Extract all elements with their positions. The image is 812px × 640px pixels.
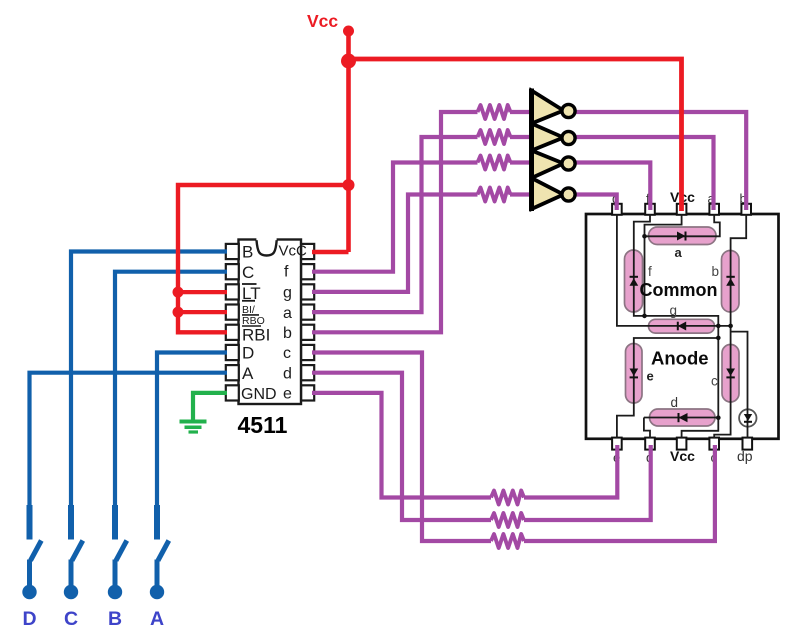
wire f output (purple) 4511 f to resistor R3 xyxy=(312,163,478,272)
switch SW-A xyxy=(150,505,169,599)
internal wire: pin b jog, segment b and c lines to pin c xyxy=(714,214,746,438)
display segment e xyxy=(626,344,643,404)
display bottom pin c (pin box) xyxy=(709,438,719,450)
junction dot rail/d xyxy=(716,415,721,420)
4511 pin BI/RBO (box) xyxy=(226,305,239,320)
display bottom pin dp (pin box) xyxy=(743,438,753,450)
wire inverter U3D output to display pin g xyxy=(576,195,617,211)
diode symbol dp xyxy=(744,414,752,422)
junction dot LT xyxy=(173,287,184,298)
wire R7 to display pin c xyxy=(524,445,715,541)
svg-text:g: g xyxy=(283,285,292,302)
display bottom pin e (pin box) xyxy=(612,438,622,450)
svg-text:A: A xyxy=(150,608,164,630)
4511 pin A (box) xyxy=(226,365,239,380)
internal wire: bottom Vcc pin to anode rail xyxy=(682,418,719,438)
internal wire: anode rail vertical xyxy=(644,236,646,316)
wire junction to 4511 Vcc pin (red) xyxy=(312,250,349,254)
display segment f xyxy=(625,250,643,312)
display top pin Vcc (pin box) xyxy=(677,204,687,215)
svg-text:GND: GND xyxy=(241,386,277,403)
wire C input (blue) from 4511 pin C to switch B column xyxy=(115,272,227,540)
svg-text:C: C xyxy=(242,263,254,282)
resistor R5 xyxy=(491,491,524,505)
display segment b xyxy=(722,251,740,313)
wire GND (green) from 4511 GND pin xyxy=(193,393,227,420)
4511 pin f (box) xyxy=(301,264,314,279)
internal wire: anode rail to segment d anode xyxy=(645,316,719,418)
resistor R3 xyxy=(478,156,511,170)
wire d output (purple) 4511 d to resistor R6 to display pin d xyxy=(312,373,491,520)
svg-text:Common: Common xyxy=(640,280,718,300)
wire R2 to inverter U3B xyxy=(510,135,531,139)
display top pin g (pin box) xyxy=(612,204,622,215)
svg-text:f: f xyxy=(284,264,289,281)
wire R4 to inverter U3D xyxy=(510,192,531,196)
svg-text:c: c xyxy=(711,374,718,389)
wire to LT pin (red) xyxy=(178,290,227,294)
svg-text:e: e xyxy=(283,386,292,403)
internal wire: segment d line xyxy=(644,418,718,439)
wire inverter U3B output to display pin a xyxy=(576,137,714,210)
junction dot rail/e-branch xyxy=(716,336,721,341)
wire Vcc to display (red) xyxy=(349,59,682,211)
svg-text:Vcc: Vcc xyxy=(670,448,695,464)
display segment c xyxy=(722,345,739,403)
svg-text:VcC: VcC xyxy=(279,243,308,260)
svg-text:c: c xyxy=(283,345,291,362)
wire red branch to LT/BI/RBI xyxy=(178,185,349,332)
wire Vcc vertical (red) xyxy=(346,31,351,252)
display dp diode circle xyxy=(739,409,756,426)
wire to BI/RBO pin (red) xyxy=(178,310,227,314)
wire R3 to inverter U3C xyxy=(510,160,531,164)
internal wire: anode rail branch to segment e xyxy=(634,338,719,344)
4511 pin Vcc (box) xyxy=(301,244,314,259)
inverter U3A xyxy=(532,91,576,124)
4511 pin c (box) xyxy=(301,345,314,360)
wire inverter U3A output to display pin b xyxy=(576,112,746,210)
4511 pin LT (box) xyxy=(226,284,239,299)
4511 IC U1 body xyxy=(239,240,302,405)
wire R6 to display pin d xyxy=(524,445,651,520)
svg-text:B: B xyxy=(242,243,253,262)
svg-text:Vcc: Vcc xyxy=(307,11,338,31)
svg-text:Anode: Anode xyxy=(651,348,709,369)
inverter U3D xyxy=(532,178,576,209)
diode symbol segment a xyxy=(677,232,686,241)
internal wire: dp anode jog and line to pin dp xyxy=(731,332,748,438)
svg-text:a: a xyxy=(675,245,683,260)
internal wire: segment a line and jog to pin a xyxy=(645,214,720,236)
svg-text:f: f xyxy=(648,264,652,279)
4511 pin b (box) xyxy=(301,325,314,340)
svg-text:a: a xyxy=(283,305,292,322)
diode symbol segment g xyxy=(678,322,686,331)
ground symbol xyxy=(180,422,207,433)
switch SW-B xyxy=(108,505,127,599)
Vcc terminal dot xyxy=(343,26,354,37)
diode symbol segment e xyxy=(630,369,639,378)
4511 pin e (box) xyxy=(301,385,314,400)
wire a output (purple) 4511 a to resistor R2 xyxy=(312,137,478,312)
svg-text:D: D xyxy=(22,608,36,630)
junction dot rail/f xyxy=(642,314,647,319)
wire inverter U3C output to display pin f xyxy=(576,163,650,211)
svg-text:C: C xyxy=(64,608,78,630)
diode symbol segment c xyxy=(726,369,735,378)
svg-text:A: A xyxy=(242,364,254,383)
internal wire: pin f jog to segment f xyxy=(634,214,650,251)
resistor R7 xyxy=(491,534,524,548)
resistor R2 xyxy=(478,130,511,144)
display top pin a (pin box) xyxy=(709,204,719,215)
diode symbol segment b xyxy=(726,277,735,286)
internal wire: segment e line to pin e xyxy=(617,344,634,439)
4511 pin g (box) xyxy=(301,284,314,299)
junction dot at Vcc rail split xyxy=(341,54,356,69)
4511 pin d (box) xyxy=(301,365,314,380)
4511 pin RBI (box) xyxy=(226,325,239,340)
internal wire: segment f line to anode rail xyxy=(634,250,645,316)
display bottom pin d (pin box) xyxy=(645,438,655,450)
svg-text:b: b xyxy=(712,264,720,279)
svg-text:4511: 4511 xyxy=(238,412,288,438)
wire R5 to display pin e xyxy=(524,445,617,498)
4511 pin B (box) xyxy=(226,244,239,259)
wire g output (purple) 4511 g to resistor R4 xyxy=(312,195,478,292)
wire b output (purple) 4511 b to resistor R1 xyxy=(312,112,478,332)
resistor R1 xyxy=(478,105,511,119)
diode symbol segment d xyxy=(679,413,688,422)
svg-text:dp: dp xyxy=(737,448,753,464)
inverter U3C xyxy=(532,151,576,179)
junction dot at 4511 Vcc branch xyxy=(343,179,355,191)
4511 pin a (box) xyxy=(301,305,314,320)
4511 pin C (box) xyxy=(226,264,239,279)
wire e output (purple) 4511 e to resistor R5 to display pin e xyxy=(312,393,491,498)
junction dot g/b xyxy=(728,324,733,329)
junction dot BI/RBO xyxy=(173,307,184,318)
svg-text:D: D xyxy=(242,344,254,363)
display segment a xyxy=(649,227,717,245)
switch SW-D xyxy=(22,505,41,599)
4511 pin GND (box) xyxy=(226,385,239,400)
4511 pin D (box) xyxy=(226,345,239,360)
wire D input (blue) from 4511 pin D to switch A column xyxy=(157,353,227,540)
junction dot a anode xyxy=(642,234,647,239)
switch SW-C xyxy=(64,505,83,599)
wire R1 to inverter U3A xyxy=(510,110,531,114)
inverter input bar xyxy=(529,89,534,212)
wire c output (purple) 4511 c to resistor R7 to display pin c xyxy=(312,353,491,542)
svg-text:d: d xyxy=(283,365,292,382)
resistor R4 xyxy=(478,188,511,202)
display segment d xyxy=(650,409,716,426)
internal wire: Vcc top pin to segment a anode xyxy=(645,214,682,236)
wire A input (blue) from 4511 pin A to switch D column xyxy=(30,373,228,540)
4511 notch xyxy=(256,238,276,241)
inverter U3B xyxy=(532,124,576,151)
resistor R6 xyxy=(491,513,524,527)
svg-text:d: d xyxy=(671,395,679,410)
svg-text:RBI: RBI xyxy=(242,326,270,345)
display segment g xyxy=(649,319,715,333)
internal wire: pin g to segment g cathode line xyxy=(617,214,731,326)
display top pin b (pin box) xyxy=(741,204,751,215)
diode symbol segment f xyxy=(630,277,639,286)
wire B input (blue) from 4511 pin B to switch C column xyxy=(71,252,227,540)
display bottom pin Vcc (pin box) xyxy=(677,438,687,450)
svg-text:e: e xyxy=(647,369,654,384)
junction dot rail/g xyxy=(716,324,721,329)
svg-text:g: g xyxy=(670,303,678,318)
svg-text:b: b xyxy=(283,325,292,342)
svg-text:B: B xyxy=(108,608,122,630)
display top pin f (pin box) xyxy=(645,204,655,215)
7-segment display U2 body xyxy=(586,214,779,439)
